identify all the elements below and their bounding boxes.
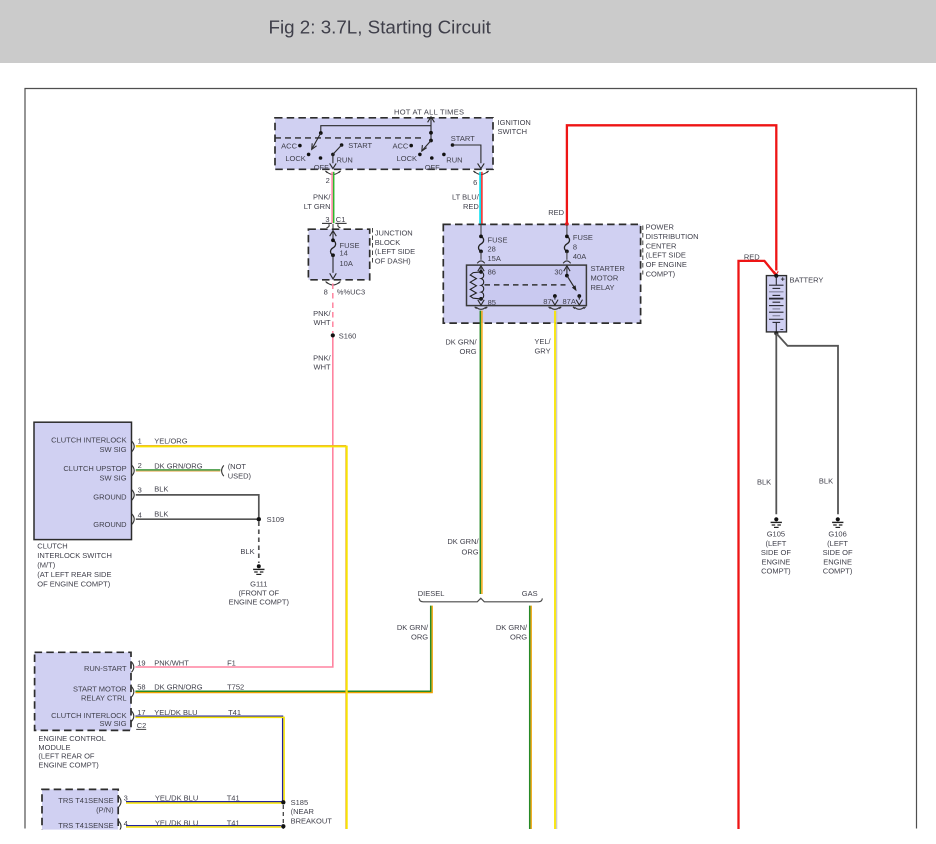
svg-text:COMPT): COMPT) [823,567,853,576]
contact RUN 2 [442,153,446,157]
ground G106 [832,517,843,527]
svg-text:BATTERY: BATTERY [790,275,824,284]
svg-text:(LEFT: (LEFT [765,539,786,548]
contact START 1 [340,143,344,147]
junction block exit arrow [330,255,337,279]
svg-text:30: 30 [554,268,562,277]
svg-text:CLUTCH: CLUTCH [37,542,67,551]
svg-text:LOCK: LOCK [397,154,417,163]
svg-text:(NEAR: (NEAR [291,807,315,816]
svg-text:(NOT: (NOT [228,462,247,471]
svg-text:DISTRIBUTION: DISTRIBUTION [646,232,699,241]
not used bracket [222,465,224,476]
connector ECM pin 17 [131,711,133,722]
svg-text:BLK: BLK [240,547,254,556]
connector pin 8 [326,282,341,286]
svg-text:C1: C1 [336,215,346,224]
node switch1 pivot [319,131,323,135]
svg-text:DK GRN/: DK GRN/ [447,537,479,546]
svg-text:C2: C2 [137,721,147,730]
switch2 lever [422,141,431,152]
junction block box [308,229,369,280]
header bar [0,0,936,63]
wire PNK/LT GRN [331,172,333,223]
svg-text:ORG: ORG [462,547,479,556]
svg-text:PNK/WHT: PNK/WHT [154,659,189,668]
wire YEL/ORG [136,445,346,829]
connector TRS pin 3 [119,796,121,807]
contact RUN 1 [331,153,335,157]
svg-text:OF DASH): OF DASH) [375,256,411,265]
wire PNK/WHT to ECM pin 19 [135,338,332,668]
wire YEL/DK BLU pin 17 [135,716,282,802]
svg-text:LT GRN: LT GRN [304,202,331,211]
svg-text:RED: RED [548,208,564,217]
connector clutch pin 3 [132,490,134,501]
contact ACC 1 [298,144,302,148]
svg-text:CENTER: CENTER [646,241,677,250]
engine control module box [35,652,131,730]
wire start2 to pin6 [453,145,485,169]
clutch interlock switch box [34,422,132,539]
svg-text:14: 14 [340,249,348,258]
svg-text:2: 2 [326,176,330,185]
svg-text:OF ENGINE: OF ENGINE [646,260,687,269]
connector TRS pin 4 [119,821,121,832]
contact OFF 2 [430,156,434,160]
wire BLK pin4 [136,518,257,520]
connector pin 6 [473,171,488,175]
connector relay 85 [475,307,488,310]
svg-text:T41: T41 [227,794,240,803]
svg-text:GROUND: GROUND [93,520,127,529]
fuse F14 [331,240,336,255]
svg-text:28: 28 [488,244,496,253]
svg-text:10A: 10A [340,259,353,268]
svg-text:DIESEL: DIESEL [418,589,445,598]
svg-text:TRS T41SENSE: TRS T41SENSE [58,821,113,830]
contact ACC 2 [409,144,413,148]
svg-text:40A: 40A [573,252,586,261]
svg-text:BLK: BLK [819,477,833,486]
svg-text:HOT AT ALL TIMES: HOT AT ALL TIMES [394,108,464,117]
wire stub into junction block [332,224,334,230]
relay coil [479,270,483,274]
svg-text:T41: T41 [227,819,240,828]
svg-text:DK GRN/ORG: DK GRN/ORG [154,683,203,692]
svg-text:YEL/DK BLU: YEL/DK BLU [155,794,198,803]
ignition switch box [275,118,493,170]
contact START 2 [451,143,455,147]
svg-text:G106: G106 [828,530,846,539]
wire DK GRN/ORG gas branch [529,606,531,829]
svg-text:RED: RED [463,202,479,211]
relay pin 30 [564,266,570,276]
relay actuator dashed link [485,284,566,286]
svg-text:4: 4 [138,510,142,519]
svg-text:SW SIG: SW SIG [100,719,127,728]
wire YEL/GRY from relay 87 [554,311,556,829]
svg-text:FUSE: FUSE [488,236,508,245]
svg-text:MOTOR: MOTOR [591,274,619,283]
connector clutch pin 2 [132,465,134,476]
svg-text:LT BLU/: LT BLU/ [452,193,480,202]
fuse 8 [565,222,569,226]
starter motor relay box [467,265,587,306]
svg-text:S109: S109 [267,515,285,524]
svg-text:1: 1 [138,436,142,445]
svg-text:85: 85 [488,298,496,307]
svg-text:G105: G105 [767,530,785,539]
svg-text:IGNITION: IGNITION [498,118,531,127]
relay pin 85 [478,299,484,305]
wire RED battery to starter [739,261,776,829]
svg-text:(AT LEFT REAR SIDE: (AT LEFT REAR SIDE [37,570,111,579]
svg-text:DK GRN/: DK GRN/ [445,338,477,347]
connector ECM pin 19 [131,662,133,673]
wire YEL/DK BLU pin 4 [126,825,281,827]
contact LOCK 1 [307,153,311,157]
svg-text:RELAY: RELAY [591,283,615,292]
node feed junction 2 [429,139,433,143]
svg-text:COMPT): COMPT) [761,567,791,576]
svg-text:OFF: OFF [314,163,329,172]
connector relay 87 [549,307,562,310]
svg-text:CLUTCH INTERLOCK: CLUTCH INTERLOCK [51,435,126,444]
junction block feed arrow [330,231,337,241]
svg-text:USED): USED) [228,471,252,480]
node battery negative [774,331,778,335]
svg-text:ENGINE CONTROL: ENGINE CONTROL [38,734,106,743]
svg-text:ENGINE COMPT): ENGINE COMPT) [38,761,99,770]
svg-text:(M/T): (M/T) [37,560,55,569]
red arrow at battery [774,271,778,274]
svg-text:ORG: ORG [510,633,527,642]
contact LOCK 2 [418,153,422,157]
svg-text:(LEFT SIDE: (LEFT SIDE [375,247,415,256]
connector C1 [322,223,347,227]
svg-text:19: 19 [137,659,145,668]
svg-text:TRS T41SENSE: TRS T41SENSE [58,796,113,805]
wire LT BLU/RED [479,172,481,224]
node feed junction 1 [429,131,433,135]
svg-text:(LEFT: (LEFT [827,539,848,548]
svg-text:SWITCH: SWITCH [498,127,528,136]
svg-text:DK GRN/: DK GRN/ [397,623,429,632]
wire RED battery to fuse 8 [567,125,776,270]
wire BLK dashed to G111 [258,522,260,564]
ignition mechanical dashed link [275,137,422,139]
svg-text:ENGINE: ENGINE [762,557,791,566]
svg-text:87: 87 [543,297,551,306]
svg-text:RED: RED [744,253,760,262]
svg-text:6: 6 [473,178,477,187]
svg-text:PNK/: PNK/ [313,353,331,362]
svg-text:3: 3 [325,215,329,224]
wire BLK battery to G105 [775,333,777,514]
splice S109 [257,517,261,521]
wire DK GRN/ORG diesel branch to ECM 58 [135,606,430,692]
svg-text:ENGINE COMPT): ENGINE COMPT) [229,598,290,607]
svg-text:86: 86 [488,268,496,277]
svg-text:(LEFT REAR OF: (LEFT REAR OF [38,752,95,761]
svg-text:POWER: POWER [646,223,675,232]
connector relay 87a [573,307,586,310]
svg-text:PNK/: PNK/ [313,309,331,318]
wire BLK battery to G106 [777,334,838,514]
svg-text:%%UC3: %%UC3 [337,287,365,296]
svg-text:S160: S160 [339,332,357,341]
label JUNCTION BLOCK [372,228,374,263]
svg-text:F1: F1 [227,659,236,668]
svg-text:T752: T752 [227,683,244,692]
split brace diesel/gas [419,598,542,602]
svg-text:ORG: ORG [460,347,477,356]
svg-text:BLK: BLK [154,485,168,494]
svg-text:8: 8 [324,287,328,296]
svg-text:PNK/: PNK/ [313,193,331,202]
connector pin 2 [325,171,340,175]
connector clutch pin 4 [132,514,134,525]
svg-text:OF ENGINE COMPT): OF ENGINE COMPT) [37,579,110,588]
contact OFF 1 [319,156,323,160]
svg-text:BLK: BLK [154,510,168,519]
ground G105 [771,517,782,527]
svg-text:START: START [348,141,372,150]
svg-text:INTERLOCK SWITCH: INTERLOCK SWITCH [37,551,112,560]
connector clutch pin 1 [132,441,134,452]
wire PNK/WHT dashed [332,284,334,334]
svg-text:(P/N): (P/N) [96,806,114,815]
relay lever [567,276,576,290]
svg-text:BREAKOUT: BREAKOUT [291,817,333,826]
svg-text:BLOCK: BLOCK [375,238,400,247]
fuse 28 [480,224,482,236]
svg-text:G111: G111 [250,580,267,589]
svg-text:15A: 15A [488,254,501,263]
wire DK GRN/ORG from relay 85 [479,311,481,594]
svg-text:COMPT): COMPT) [646,270,676,279]
svg-text:ORG: ORG [411,633,428,642]
svg-text:CLUTCH UPSTOP: CLUTCH UPSTOP [63,464,126,473]
svg-text:START: START [451,134,475,143]
svg-text:GRY: GRY [534,347,550,356]
svg-text:87A: 87A [563,297,576,306]
relay pin 87a [577,294,581,298]
svg-text:SW SIG: SW SIG [100,445,127,454]
bottom crop [0,830,936,844]
svg-text:BLK: BLK [757,477,771,486]
svg-text:SIDE OF: SIDE OF [761,548,791,557]
ignition feed wire [428,117,435,141]
svg-text:YEL/DK BLU: YEL/DK BLU [155,819,198,828]
svg-text:ACC: ACC [281,141,297,150]
svg-text:(FRONT OF: (FRONT OF [238,588,279,597]
svg-text:3: 3 [138,486,142,495]
svg-text:SW SIG: SW SIG [100,474,127,483]
wire switch1 crossbar [321,126,431,133]
connector ECM pin 58 [131,687,133,698]
svg-text:2: 2 [138,461,142,470]
svg-text:YEL/ORG: YEL/ORG [154,437,188,446]
splice S160 [331,333,335,337]
svg-text:S185: S185 [291,798,309,807]
svg-text:Fig 2: 3.7L, Starting Circuit: Fig 2: 3.7L, Starting Circuit [269,17,492,38]
svg-text:JUNCTION: JUNCTION [375,229,413,238]
svg-text:WHT: WHT [314,363,331,372]
svg-text:OFF: OFF [425,163,440,172]
TRS box [42,789,118,836]
power distribution center box [443,224,640,323]
svg-text:FUSE: FUSE [573,233,593,242]
svg-text:58: 58 [137,683,145,692]
wire YEL/DK BLU pin 3 [126,801,281,803]
svg-text:GROUND: GROUND [93,492,127,501]
svg-text:8: 8 [573,243,577,252]
relay pin 87 [553,294,557,298]
svg-text:SIDE OF: SIDE OF [823,548,853,557]
splice S185 [281,800,285,804]
svg-text:RELAY CTRL: RELAY CTRL [81,693,127,702]
relay pin 86 [478,266,484,272]
svg-text:DK GRN/ORG: DK GRN/ORG [154,462,203,471]
svg-text:MODULE: MODULE [38,743,70,752]
ground G111 [253,564,264,574]
svg-text:WHT: WHT [314,318,331,327]
svg-text:GAS: GAS [522,589,538,598]
label POWER DISTRIBUTION CENTER [642,226,644,275]
svg-text:ENGINE: ENGINE [823,557,852,566]
wire BLK pin3 [136,495,259,517]
svg-text:YEL/: YEL/ [534,337,551,346]
svg-text:DK GRN/: DK GRN/ [496,623,528,632]
svg-text:RUN: RUN [337,155,353,164]
wire DK GRN/ORG not used [136,469,221,471]
svg-text:(LEFT SIDE: (LEFT SIDE [646,251,686,260]
svg-text:STARTER: STARTER [591,264,626,273]
svg-text:ACC: ACC [392,141,408,150]
battery [766,276,786,332]
switch1 lever [312,133,321,149]
svg-text:LOCK: LOCK [285,154,305,163]
svg-text:RUN: RUN [446,155,462,164]
svg-text:RUN-START: RUN-START [84,664,127,673]
wire start1 to pin2 [330,145,342,169]
